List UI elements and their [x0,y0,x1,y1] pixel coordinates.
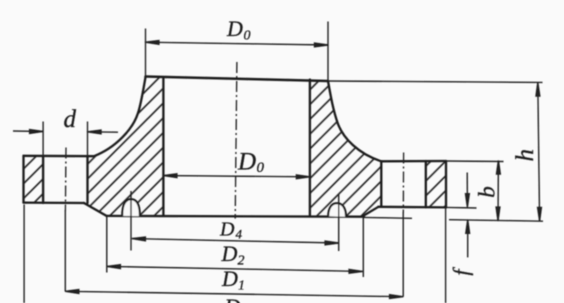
svg-text:4: 4 [236,227,243,242]
D2 right ext [362,218,364,278]
svg-text:d: d [64,106,77,133]
dim f lower arrow [467,225,469,257]
flange OD left ext [23,205,25,303]
left arch [122,199,140,216]
D4 right ext [338,195,340,252]
bore left edge [162,77,164,216]
left bolt hole left edge [42,156,44,203]
flange bottom left [24,201,85,204]
hatch fill: right hub and neck wall [310,80,381,217]
bore right edge [309,80,311,217]
hatch fill: right flange plate [426,161,446,207]
right arch [328,203,346,217]
left neck taper and fillet [94,77,146,157]
left bolt centerline [64,148,67,212]
flange right edge [445,161,447,207]
svg-text:2: 2 [238,253,245,268]
D4 left ext [130,191,132,251]
flange bottom right [378,206,446,209]
svg-text:D: D [226,16,243,41]
left bolt hole right edge [86,156,88,203]
D1 right ext [402,212,404,297]
svg-text:D: D [221,266,238,291]
right bolt hole left edge [380,161,382,207]
main centerline [235,62,237,219]
flange top ext to b [446,160,504,163]
right chamfer [363,207,379,216]
dim D0 top [145,42,328,45]
dim h [538,83,540,221]
dim b [497,161,499,221]
right neck taper and fillet [328,81,381,161]
dim f upper arrow [466,173,468,203]
D2 left ext [106,216,108,273]
hatch fill: left flange plate [24,156,44,203]
d dim right ext [87,122,89,157]
top D0 right ext [327,22,329,82]
left chamfer [84,203,106,216]
svg-text:h: h [512,149,539,162]
flange OD right ext [445,208,447,303]
right bolt hole right edge [425,161,427,207]
d dim left ext [42,122,44,157]
right bolt centerline [402,153,404,214]
flange top left [24,155,95,158]
raised bottom ext to h [449,220,543,222]
flange left edge [22,156,24,203]
svg-text:0: 0 [244,29,251,44]
flange top right [381,160,446,163]
top D0 left ext [145,29,147,77]
neck top ext to h [328,81,543,82]
dim d [13,130,43,132]
raised face bottom [106,215,364,218]
arches (spot faces) [122,199,346,217]
neck top edge [146,77,328,82]
hatch fill: left hub and neck wall [84,77,163,217]
svg-text:D: D [221,241,238,266]
svg-text:f: f [449,267,474,276]
svg-text:D: D [219,219,235,241]
svg-text:1: 1 [238,279,245,294]
svg-text:D: D [224,294,241,303]
D1 left ext [64,210,66,292]
dim D1 [65,291,403,296]
svg-text:0: 0 [257,160,265,176]
svg-text:b: b [475,186,500,198]
svg-text:D: D [237,149,256,176]
flange bottom ext to f [446,206,477,209]
dim D2 [107,266,363,271]
raised bottom ext mid [364,216,412,219]
dim D4 [132,239,339,243]
dim D0 bore [163,176,310,177]
